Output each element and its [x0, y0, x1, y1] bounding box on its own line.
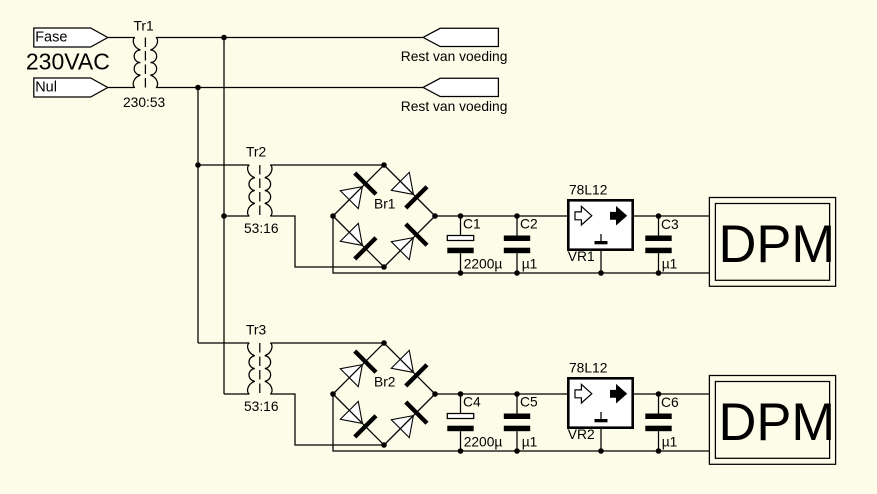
svg-text:53:16: 53:16: [244, 399, 279, 414]
capacitor C1: [447, 216, 502, 273]
wire Tr3 secondary bottom to bridge: [270, 394, 384, 445]
wire positive rail upper: [435, 215, 709, 217]
svg-text:C6: C6: [661, 395, 679, 410]
connector Rest van voeding 2: [401, 78, 508, 114]
transformer Tr1: [123, 19, 166, 111]
wire Fase to Tr1: [108, 37, 135, 39]
capacitor C4: [447, 394, 502, 451]
svg-text:C1: C1: [463, 217, 481, 232]
svg-text:C5: C5: [520, 395, 538, 410]
wire negative rail upper: [333, 216, 709, 273]
capacitor C6: [645, 394, 679, 451]
voltage regulator U VR2 78L12: [568, 360, 633, 442]
svg-text:78L12: 78L12: [569, 360, 607, 375]
node Br1 dots: [330, 162, 438, 270]
svg-text:Tr3: Tr3: [246, 323, 267, 338]
wire Tr1 top to Rest van voeding 1: [156, 37, 423, 39]
wire to Tr2 primary top: [198, 164, 249, 166]
svg-text:C2: C2: [520, 217, 538, 232]
wire to Tr3 primary bottom: [224, 393, 249, 395]
wire negative rail lower: [333, 394, 709, 451]
svg-text:VR2: VR2: [568, 427, 595, 442]
node dots upper rails: [458, 213, 662, 276]
svg-text:Br2: Br2: [374, 375, 395, 390]
voltage regulator U VR1 78L12: [568, 182, 633, 264]
svg-text:Nul: Nul: [35, 79, 57, 95]
svg-text:µ1: µ1: [522, 257, 538, 272]
output arrow solid: [610, 384, 627, 404]
output arrow solid: [610, 206, 627, 226]
capacitor C5: [504, 394, 538, 451]
svg-text:DPM: DPM: [719, 215, 836, 274]
svg-text:C4: C4: [463, 395, 481, 410]
wire to Tr2 primary bottom: [224, 215, 249, 217]
wire Nul to Tr1: [108, 87, 135, 89]
svg-text:Br1: Br1: [374, 197, 395, 212]
ground symbol: [600, 412, 602, 419]
svg-text:53:16: 53:16: [244, 221, 279, 236]
diode Br2 top-left: [339, 349, 378, 388]
input arrow hollow: [575, 384, 592, 403]
wire Tr2 secondary top to bridge: [270, 164, 384, 166]
wire VR1 ground lead: [600, 251, 602, 273]
node dots lower rails: [458, 391, 662, 454]
diode Br1 bottom-right: [390, 222, 429, 261]
svg-text:2200µ: 2200µ: [464, 435, 503, 450]
svg-text:78L12: 78L12: [569, 182, 607, 197]
diode Br2 bottom-right: [390, 400, 429, 439]
svg-text:C3: C3: [661, 217, 679, 232]
svg-text:Fase: Fase: [35, 29, 67, 45]
svg-text:Tr1: Tr1: [134, 19, 154, 34]
wire Tr2 secondary bottom to bridge: [270, 216, 384, 267]
wire to Tr3 primary top: [198, 342, 249, 344]
diode Br2 bottom-left: [339, 400, 378, 439]
node Br2 dots: [330, 340, 438, 448]
capacitor C3: [645, 216, 679, 273]
connector Fase: [34, 28, 108, 47]
svg-text:µ1: µ1: [522, 435, 538, 450]
node junction dots top: [195, 35, 227, 219]
svg-text:Rest van voeding: Rest van voeding: [401, 99, 508, 114]
svg-text:Tr2: Tr2: [246, 145, 266, 160]
diode Br1 top-right: [390, 171, 429, 210]
input arrow hollow: [575, 206, 592, 225]
svg-text:VR1: VR1: [568, 249, 595, 264]
svg-text:Rest van voeding: Rest van voeding: [401, 49, 508, 64]
meter DPM 2: [709, 376, 835, 465]
wire vertical feeder A: [223, 38, 225, 395]
connector Nul: [34, 78, 108, 97]
bridge rectifier Br2: [333, 343, 435, 445]
diode Br1 bottom-left: [339, 222, 378, 261]
diode Br2 top-right: [390, 349, 429, 388]
wire positive rail lower: [435, 393, 709, 395]
wire vertical feeder B: [197, 88, 199, 344]
svg-text:230VAC: 230VAC: [26, 49, 110, 75]
transformer Tr3: [244, 323, 279, 415]
svg-text:DPM: DPM: [719, 393, 836, 452]
svg-text:µ1: µ1: [662, 257, 678, 272]
ground symbol: [600, 234, 602, 241]
meter DPM 1: [709, 198, 835, 287]
bridge rectifier Br1: [333, 165, 435, 267]
svg-text:µ1: µ1: [662, 435, 678, 450]
capacitor C2: [504, 216, 538, 273]
svg-text:230:53: 230:53: [123, 95, 166, 110]
diode Br1 top-left: [339, 171, 378, 210]
wire Tr3 secondary top to bridge: [270, 342, 384, 344]
wire VR2 ground lead: [600, 429, 602, 451]
transformer Tr2: [244, 145, 279, 237]
svg-text:2200µ: 2200µ: [464, 257, 503, 272]
wire Tr1 bottom to Rest van voeding 2: [156, 87, 423, 89]
connector Rest van voeding 1: [401, 28, 508, 64]
